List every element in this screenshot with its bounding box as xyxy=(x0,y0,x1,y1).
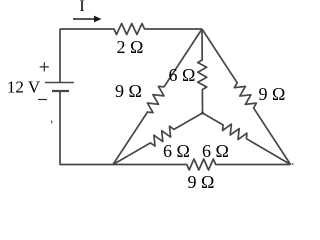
resistor R 2ohm on top wire with wires to top node T xyxy=(60,24,202,35)
node C junction dot xyxy=(201,111,204,114)
resistor R 6ohm diagonal from center node C to node A xyxy=(113,113,203,165)
label 12 V xyxy=(7,78,40,95)
label I xyxy=(79,0,84,15)
label 6 ohm bottom-left xyxy=(163,142,190,160)
label 6 ohm center xyxy=(169,66,196,84)
label 6 ohm bottom-right xyxy=(202,142,229,160)
resistor R 6ohm diagonal from center node C to node B xyxy=(203,113,291,165)
resistor R 9ohm bottom wire from node A to node B xyxy=(113,159,291,170)
wire: left vertical from top-left corner down to battery top plate xyxy=(59,29,61,82)
battery V1 12V: long top plate xyxy=(45,82,74,84)
resistor R 9ohm right diagonal from top node T to node B xyxy=(202,29,291,165)
battery V1 12V: short bottom plate xyxy=(52,90,69,92)
current arrow for I xyxy=(73,16,102,23)
label 9 ohm right xyxy=(259,85,286,103)
resistor R 6ohm vertical from top node T to center node C xyxy=(198,29,207,113)
battery plus sign xyxy=(40,62,49,71)
label 2 ohm xyxy=(117,38,144,56)
stray mark xyxy=(51,121,52,124)
wire: left vertical from battery bottom plate to bottom-left corner xyxy=(60,92,113,165)
node B junction dot xyxy=(292,163,294,165)
label 9 ohm bottom xyxy=(188,173,215,191)
resistor R 9ohm left diagonal from top node T to node A xyxy=(113,29,202,165)
label 9 ohm left xyxy=(115,82,142,100)
battery minus sign xyxy=(38,99,47,101)
